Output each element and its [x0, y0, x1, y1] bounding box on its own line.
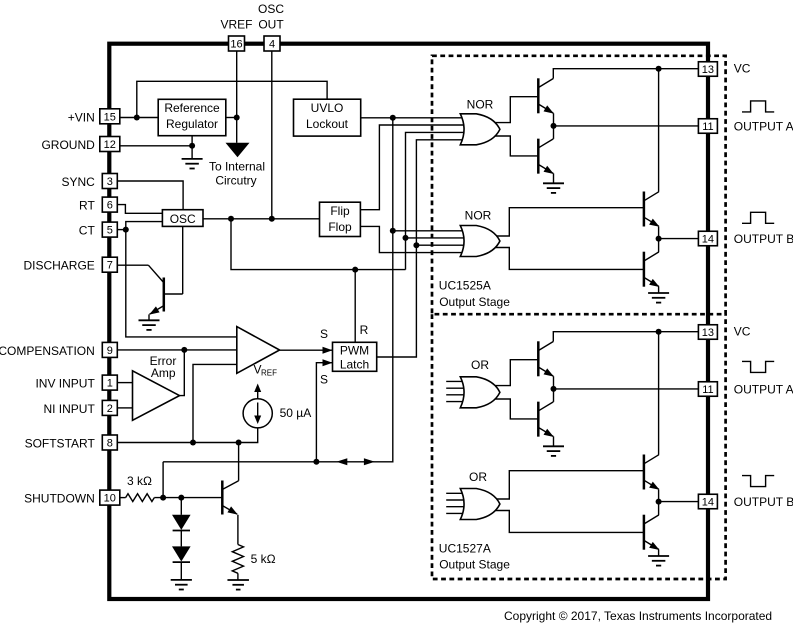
svg-text:13: 13: [702, 327, 714, 339]
svg-text:REF: REF: [261, 369, 277, 378]
svg-text:7: 7: [107, 260, 113, 272]
svg-text:S: S: [320, 327, 328, 341]
svg-text:14: 14: [702, 497, 714, 509]
svg-text:UVLO: UVLO: [311, 101, 344, 115]
svg-text:NI INPUT: NI INPUT: [43, 402, 95, 416]
svg-text:Amp: Amp: [151, 366, 176, 380]
svg-text:Flip: Flip: [330, 204, 350, 218]
svg-text:OUTPUT A: OUTPUT A: [734, 119, 793, 133]
svg-text:8: 8: [107, 438, 113, 450]
svg-text:16: 16: [230, 39, 242, 51]
svg-text:NOR: NOR: [465, 209, 492, 223]
svg-text:PWM: PWM: [340, 344, 369, 358]
svg-text:OUT: OUT: [258, 17, 284, 31]
svg-text:3 kΩ: 3 kΩ: [127, 474, 152, 488]
svg-text:5: 5: [107, 225, 113, 237]
svg-text:NOR: NOR: [467, 98, 494, 112]
svg-text:GROUND: GROUND: [41, 138, 95, 152]
svg-text:5 kΩ: 5 kΩ: [251, 552, 276, 566]
svg-text:OSC: OSC: [258, 2, 284, 16]
svg-text:OR: OR: [469, 470, 487, 484]
svg-text:CT: CT: [79, 224, 96, 238]
svg-text:OUTPUT B: OUTPUT B: [734, 232, 793, 246]
svg-text:Circutry: Circutry: [215, 174, 256, 188]
svg-text:15: 15: [104, 111, 116, 123]
svg-text:Output Stage: Output Stage: [439, 295, 510, 309]
svg-text:12: 12: [104, 139, 116, 151]
svg-text:INV INPUT: INV INPUT: [35, 377, 95, 391]
svg-text:OR: OR: [471, 358, 489, 372]
svg-text:OUTPUT B: OUTPUT B: [734, 495, 793, 509]
svg-text:2: 2: [107, 403, 113, 415]
svg-text:11: 11: [702, 384, 713, 396]
svg-text:9: 9: [107, 345, 113, 357]
svg-text:COMPENSATION: COMPENSATION: [0, 344, 95, 358]
svg-text:S: S: [320, 373, 328, 387]
svg-text:R: R: [360, 323, 369, 337]
svg-text:3: 3: [107, 176, 113, 188]
svg-text:4: 4: [269, 39, 275, 51]
svg-text:Flop: Flop: [328, 220, 352, 234]
svg-text:Latch: Latch: [340, 358, 369, 372]
svg-text:SYNC: SYNC: [61, 175, 95, 189]
svg-text:Output Stage: Output Stage: [439, 557, 510, 571]
svg-text:+VIN: +VIN: [68, 110, 95, 124]
svg-text:RT: RT: [79, 199, 95, 213]
svg-text:DISCHARGE: DISCHARGE: [23, 259, 94, 273]
svg-text:UC1527A: UC1527A: [439, 541, 491, 555]
svg-text:VC: VC: [734, 61, 751, 75]
svg-text:Lockout: Lockout: [306, 117, 349, 131]
svg-text:13: 13: [702, 64, 714, 76]
svg-text:1: 1: [107, 378, 113, 390]
svg-text:6: 6: [107, 200, 113, 212]
svg-text:10: 10: [104, 493, 116, 505]
svg-text:To Internal: To Internal: [209, 160, 265, 174]
svg-text:OUTPUT A: OUTPUT A: [734, 382, 793, 396]
svg-text:Regulator: Regulator: [166, 117, 218, 131]
svg-text:Copyright © 2017, Texas Instru: Copyright © 2017, Texas Instruments Inco…: [504, 609, 772, 623]
svg-text:11: 11: [702, 121, 713, 133]
svg-text:Reference: Reference: [164, 101, 220, 115]
svg-text:50 µA: 50 µA: [280, 406, 312, 420]
svg-text:VREF: VREF: [220, 17, 252, 31]
svg-text:14: 14: [702, 234, 714, 246]
svg-text:SOFTSTART: SOFTSTART: [25, 437, 96, 451]
svg-text:OSC: OSC: [170, 212, 196, 226]
svg-text:VC: VC: [734, 324, 751, 338]
svg-text:SHUTDOWN: SHUTDOWN: [24, 492, 95, 506]
svg-text:UC1525A: UC1525A: [439, 278, 491, 292]
